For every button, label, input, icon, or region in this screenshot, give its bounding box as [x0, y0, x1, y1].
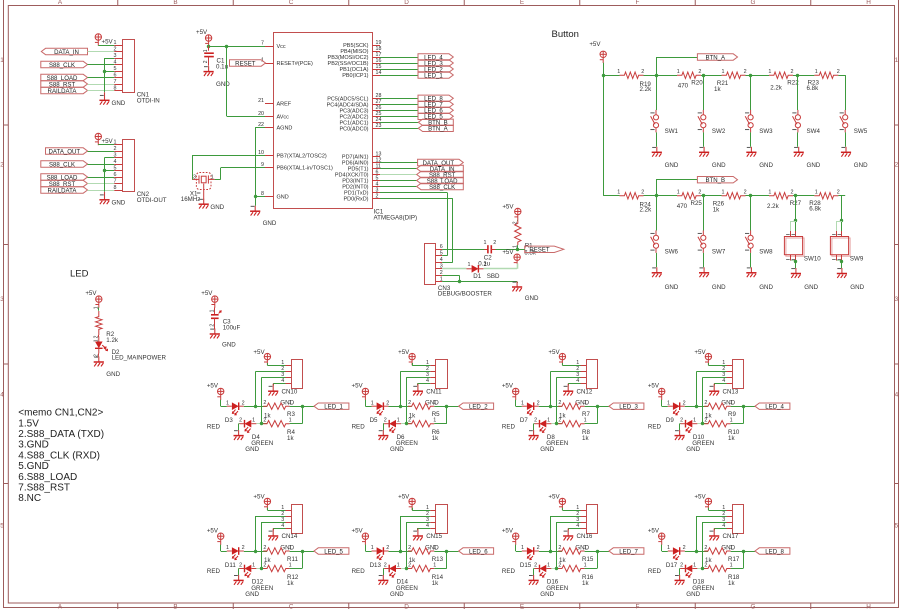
- svg-text:2: 2: [641, 190, 644, 196]
- ground symbol at CN16 pin 4: [567, 529, 569, 537]
- wire PB6 to crystal: [221, 167, 265, 169]
- svg-text:+5V: +5V: [201, 290, 213, 297]
- wire node down to R12: [302, 551, 304, 569]
- svg-text:1: 1: [203, 49, 209, 52]
- wire R28 to SW9: [838, 195, 842, 197]
- svg-text:1: 1: [93, 306, 99, 309]
- wire D9 to node: [685, 406, 697, 408]
- svg-text:PD0(RxD): PD0(RxD): [343, 197, 368, 203]
- wire +5V to D7: [515, 400, 517, 406]
- svg-text:+5V: +5V: [352, 383, 364, 390]
- svg-text:1: 1: [584, 562, 587, 568]
- wire R11 to LED_5 node: [290, 551, 314, 553]
- svg-text:2: 2: [386, 400, 389, 406]
- resistor R23 6.8k: [814, 72, 838, 78]
- ground symbol at SW9: [841, 268, 843, 274]
- svg-text:2: 2: [698, 69, 701, 75]
- svg-text:21: 21: [258, 98, 264, 104]
- svg-text:1k: 1k: [582, 580, 589, 587]
- svg-text:SW2: SW2: [712, 128, 726, 135]
- IC1 right pins: [372, 45, 380, 47]
- wire node down to R6: [446, 406, 448, 424]
- wire +5V to CN11 pin 1: [412, 363, 414, 365]
- svg-text:1k: 1k: [432, 435, 439, 442]
- +5V supply at CN11: [409, 353, 416, 365]
- wire node down to R8: [597, 406, 599, 424]
- net flag BTN_A: [656, 57, 658, 75]
- wire +5V to D13: [365, 545, 367, 551]
- switch SW6: [656, 196, 658, 231]
- svg-text:1: 1: [667, 400, 670, 406]
- net flag LED_2 at IC1: [418, 66, 453, 72]
- svg-text:1: 1: [768, 190, 771, 196]
- wire S88_LOAD to pin 6: [88, 77, 115, 79]
- svg-text:1: 1: [617, 69, 620, 75]
- wire D7 to node: [539, 406, 551, 408]
- svg-text:2: 2: [263, 562, 266, 568]
- resistor R15 1k: [551, 551, 562, 553]
- svg-text:+5V: +5V: [648, 527, 660, 534]
- svg-text:22: 22: [258, 122, 264, 128]
- ground symbol at D12: [238, 575, 240, 581]
- svg-text:D: D: [404, 0, 409, 6]
- svg-text:GND: GND: [665, 162, 679, 169]
- svg-text:6.8k: 6.8k: [809, 206, 822, 213]
- wire CN3 pin 1 to ground: [442, 281, 517, 283]
- svg-text:D15: D15: [520, 562, 532, 569]
- svg-text:2: 2: [558, 562, 561, 568]
- svg-text:2: 2: [641, 69, 644, 75]
- wire CN11 pin 3 down: [406, 377, 430, 379]
- svg-text:RED: RED: [352, 568, 366, 575]
- ground rail of CN1 (pins 3,5): [105, 58, 115, 60]
- svg-text:1: 1: [617, 190, 620, 196]
- ground symbol CN2: [104, 192, 106, 200]
- svg-text:C: C: [289, 604, 294, 609]
- net flag LED_6 at IC1: [418, 107, 453, 113]
- led D12 GREEN: [245, 565, 252, 573]
- svg-text:4: 4: [114, 159, 117, 165]
- svg-text:2: 2: [384, 418, 387, 424]
- svg-text:2: 2: [558, 545, 561, 551]
- wire CN16 pin 4 to ground: [568, 528, 580, 530]
- net flag LED_5: [314, 548, 349, 554]
- svg-text:2: 2: [683, 400, 686, 406]
- net flag LED_4: [755, 403, 790, 409]
- svg-text:LED_6: LED_6: [469, 548, 488, 555]
- wire R12 to node: [290, 568, 302, 570]
- svg-text:SW4: SW4: [807, 128, 821, 135]
- wire D18 to ground: [679, 568, 682, 570]
- wire CN17 pin 3 down: [703, 522, 727, 524]
- svg-text:2: 2: [408, 545, 411, 551]
- wire +5V to D3: [220, 400, 222, 406]
- net flag S88_RST: [41, 81, 88, 87]
- resistor R22 2.2k: [769, 72, 793, 78]
- svg-text:S88_CLK: S88_CLK: [429, 184, 455, 191]
- svg-text:2: 2: [537, 545, 540, 551]
- svg-text:2: 2: [0, 162, 4, 169]
- svg-text:A: A: [58, 0, 63, 6]
- svg-text:RAILDATA: RAILDATA: [48, 88, 78, 95]
- svg-text:4: 4: [0, 392, 4, 399]
- svg-text:2: 2: [239, 563, 242, 569]
- svg-text:CN10: CN10: [282, 388, 298, 395]
- wire CN12 pin 2 down: [551, 371, 581, 373]
- svg-text:S88_CLK: S88_CLK: [49, 161, 75, 168]
- svg-text:3: 3: [114, 53, 117, 59]
- wire PD2 to S88_CLK flag: [380, 186, 417, 188]
- led D5 RED: [377, 402, 384, 410]
- resistor R9 1k: [697, 406, 708, 408]
- ground symbol at SW5: [845, 147, 847, 153]
- ground symbol at SW8: [750, 267, 752, 273]
- resistor R5 1k: [401, 406, 412, 408]
- svg-text:PB0(ICP1): PB0(ICP1): [342, 73, 368, 79]
- +5V supply at CN17: [705, 498, 712, 510]
- svg-text:GND: GND: [686, 591, 700, 598]
- net flag LED_6: [459, 548, 494, 554]
- wire CN3 pin 2 join pin 1: [442, 275, 459, 277]
- svg-text:1: 1: [730, 545, 733, 551]
- svg-text:2: 2: [537, 400, 540, 406]
- svg-text:LED_MAINPOWER: LED_MAINPOWER: [112, 354, 167, 361]
- ground symbol at CN11 pin 4: [417, 384, 419, 392]
- wire CN12 pin 4 to ground: [568, 383, 580, 385]
- svg-text:PB7(XTAL2/TOSC2): PB7(XTAL2/TOSC2): [277, 154, 327, 160]
- svg-text:GND: GND: [759, 284, 773, 291]
- led D4 GREEN: [245, 420, 252, 428]
- wire PD6 to DATA_OUT flag: [380, 162, 418, 164]
- svg-text:1: 1: [547, 418, 550, 424]
- +5V supply at D1: [514, 254, 521, 264]
- svg-text:470: 470: [677, 203, 688, 210]
- svg-text:F: F: [636, 0, 640, 6]
- svg-text:2: 2: [744, 190, 747, 196]
- svg-text:+5V: +5V: [502, 527, 514, 534]
- ground symbol at SW3: [750, 147, 752, 153]
- svg-text:D3: D3: [225, 417, 233, 424]
- wire button rail BTN_A: [603, 75, 619, 77]
- wire AVcc feed: [226, 46, 228, 116]
- svg-text:2: 2: [493, 240, 496, 246]
- led D15 RED: [527, 547, 534, 555]
- svg-text:100uF: 100uF: [223, 325, 241, 332]
- svg-text:LED_3: LED_3: [619, 404, 638, 411]
- wire node down to R10: [743, 406, 745, 424]
- ground symbol at CN12 pin 4: [567, 384, 569, 392]
- wires PC5-PC2 to LED flags: [380, 98, 418, 100]
- svg-text:1: 1: [371, 400, 374, 406]
- wire +5V to D11: [220, 545, 222, 551]
- net flag RAILDATA: [41, 87, 88, 93]
- svg-text:2: 2: [114, 146, 117, 152]
- svg-text:D13: D13: [370, 562, 382, 569]
- svg-text:4.S88_CLK (RXD): 4.S88_CLK (RXD): [18, 450, 100, 461]
- junction dots rail BTN_A: [655, 74, 658, 77]
- svg-text:2: 2: [242, 400, 245, 406]
- ground symbol at C1: [208, 66, 210, 72]
- svg-text:CN16: CN16: [577, 533, 593, 540]
- wire D14 to ground: [382, 568, 385, 570]
- svg-text:D1: D1: [473, 273, 481, 280]
- svg-text:1.5V: 1.5V: [18, 418, 39, 429]
- svg-text:4: 4: [440, 257, 443, 263]
- net flag RAILDATA: [41, 187, 88, 193]
- svg-text:GND: GND: [807, 162, 821, 169]
- svg-text:1.2k: 1.2k: [106, 337, 119, 344]
- svg-text:RESET#(PCE): RESET#(PCE): [277, 61, 314, 67]
- +5V supply at CN13: [705, 353, 712, 365]
- svg-text:GND: GND: [106, 371, 120, 378]
- svg-text:5: 5: [440, 251, 443, 257]
- wire D4 to ground: [238, 423, 241, 425]
- svg-text:2: 2: [376, 193, 379, 199]
- wire R17 to LED_8 node: [731, 551, 755, 553]
- wire CN10 pin 3 down: [262, 377, 286, 379]
- svg-text:8: 8: [261, 191, 264, 197]
- svg-text:ATMEGA8(DIP): ATMEGA8(DIP): [374, 214, 418, 221]
- ground symbol at D2: [98, 355, 100, 356]
- svg-text:GND: GND: [210, 204, 224, 211]
- switch SW1: [656, 75, 658, 110]
- wire AGND down to GND pin: [255, 127, 265, 129]
- svg-text:RESET: RESET: [529, 247, 550, 254]
- svg-text:+5V: +5V: [589, 41, 601, 48]
- svg-text:LED_5: LED_5: [324, 548, 343, 555]
- svg-text:GND: GND: [222, 341, 236, 348]
- wire node down to R18: [743, 551, 745, 569]
- resistor R12 1k: [262, 568, 267, 570]
- svg-text:AREF: AREF: [277, 101, 292, 107]
- net flag RESET at CN3: [525, 246, 564, 252]
- svg-text:1: 1: [521, 545, 524, 551]
- crystal X1 16MHz: [193, 173, 215, 200]
- wire CN13 pin 2 down: [697, 371, 727, 373]
- svg-text:BTN_A: BTN_A: [705, 54, 726, 61]
- svg-text:F: F: [636, 604, 640, 609]
- svg-text:1: 1: [397, 418, 400, 424]
- wire +5V to CN15 pin 1: [412, 508, 414, 510]
- svg-text:1: 1: [211, 174, 214, 180]
- svg-text:SW3: SW3: [759, 128, 773, 135]
- net flag DATA_OUT at IC1: [418, 159, 464, 165]
- switch SW5: [845, 75, 847, 110]
- wire PD3 to S88_LOAD flag: [380, 180, 417, 182]
- +5V supply for button rows: [600, 51, 607, 63]
- svg-text:2: 2: [704, 400, 707, 406]
- svg-text:LED_1: LED_1: [324, 404, 343, 411]
- +5V supply at CN1 pin 1: [95, 34, 102, 46]
- wire R5 to LED_2 node: [434, 406, 458, 408]
- svg-text:A: A: [58, 604, 63, 609]
- wire D10 to ground: [679, 423, 682, 425]
- ground symbol at CN10 pin 4: [272, 384, 274, 392]
- wire R4 to node: [290, 423, 302, 425]
- ground symbol at D18: [679, 575, 681, 581]
- resistor R27 2.2k: [769, 193, 793, 199]
- svg-text:LED_8: LED_8: [765, 548, 784, 555]
- svg-text:1: 1: [433, 562, 436, 568]
- svg-text:2: 2: [744, 69, 747, 75]
- wire R7 to LED_3 node: [585, 406, 609, 408]
- net flag LED_8 at IC1: [418, 95, 453, 101]
- wire +5V to CN10 pin 1: [267, 363, 269, 365]
- svg-text:2: 2: [512, 221, 518, 224]
- svg-text:SBD: SBD: [487, 273, 500, 280]
- svg-text:+5V: +5V: [694, 349, 706, 356]
- resistor R7 1k: [551, 406, 562, 408]
- net flag S88_RST at IC1: [417, 171, 464, 177]
- svg-text:1: 1: [0, 57, 4, 64]
- net flag S88_CLK: [41, 61, 88, 67]
- net flag LED_7 at IC1: [418, 101, 453, 107]
- svg-text:RED: RED: [502, 568, 516, 575]
- svg-text:6.S88_LOAD: 6.S88_LOAD: [18, 472, 77, 483]
- ground symbol at D14: [382, 575, 384, 581]
- led D13 RED: [377, 547, 384, 555]
- svg-text:GND: GND: [686, 446, 700, 453]
- svg-text:2: 2: [384, 563, 387, 569]
- wire R16 to node: [585, 568, 597, 570]
- svg-text:2: 2: [263, 418, 266, 424]
- resistor R19 2.2k: [620, 72, 644, 78]
- resistor R10 1k: [703, 423, 708, 425]
- resistor R17 1k: [697, 551, 708, 553]
- led D14 GREEN: [389, 565, 396, 573]
- wire RAILDATA to pin 8: [88, 90, 115, 92]
- svg-text:SW9: SW9: [850, 256, 864, 263]
- ground symbol at D10: [679, 430, 681, 436]
- +5V supply at D17: [658, 533, 665, 545]
- IC1 left pins: [265, 46, 273, 48]
- resistor R25 470: [677, 193, 701, 199]
- net flag LED_3: [609, 403, 644, 409]
- svg-text:7: 7: [261, 41, 264, 47]
- wire +5V to CN1 pin 1: [98, 44, 100, 46]
- wire DATA_IN to pin 2: [88, 51, 115, 53]
- wire S88_CLK to pin 4: [88, 64, 115, 66]
- connector CN14: [292, 505, 303, 534]
- svg-text:1: 1: [584, 418, 587, 424]
- wire CN17 pin 2 down: [697, 516, 727, 518]
- svg-text:2: 2: [408, 400, 411, 406]
- svg-text:2: 2: [239, 418, 242, 424]
- resistor R14 1k: [406, 568, 411, 570]
- wire D3 to node: [244, 406, 256, 408]
- wire R9 to LED_4 node: [731, 406, 755, 408]
- svg-text:E: E: [520, 604, 524, 609]
- svg-text:LED_4: LED_4: [765, 404, 784, 411]
- net flag LED_8: [755, 548, 790, 554]
- wire node down to R4: [302, 406, 304, 424]
- svg-text:GND: GND: [216, 81, 230, 88]
- wire D15 to node: [539, 551, 551, 553]
- wire button rail BTN_B: [616, 195, 620, 197]
- wire CN15 pin 2 down: [401, 516, 431, 518]
- svg-text:7: 7: [114, 79, 117, 85]
- svg-text:2: 2: [698, 190, 701, 196]
- ground symbol at SW4: [798, 147, 800, 153]
- capacitor C2: [484, 249, 488, 251]
- wire PB7 to crystal: [192, 155, 265, 157]
- net flag S88_RST: [41, 180, 88, 186]
- svg-text:+5V: +5V: [253, 349, 265, 356]
- svg-text:1: 1: [895, 57, 899, 64]
- wire CN10 pin 2 down: [256, 371, 286, 373]
- svg-text:5: 5: [895, 523, 899, 530]
- svg-text:B: B: [173, 0, 177, 6]
- svg-text:GND: GND: [525, 295, 539, 302]
- net flag DATA_OUT: [46, 148, 88, 154]
- capacitor C1: [208, 46, 210, 51]
- resistor R26 1k: [722, 193, 746, 199]
- svg-text:SW7: SW7: [712, 249, 726, 256]
- svg-text:DATA_IN: DATA_IN: [54, 49, 79, 56]
- svg-text:1: 1: [468, 262, 471, 268]
- svg-text:GND: GND: [540, 446, 554, 453]
- +5V supply at D7: [512, 388, 519, 400]
- svg-text:1: 1: [433, 545, 436, 551]
- svg-text:8: 8: [114, 185, 117, 191]
- wire R3 to LED_1 node: [290, 406, 314, 408]
- wires PC1,PC0 to BTN flags: [380, 122, 418, 124]
- svg-text:+5V: +5V: [694, 494, 706, 501]
- +5V supply at D11: [217, 533, 224, 545]
- connector CN11: [436, 360, 448, 389]
- svg-text:AGND: AGND: [277, 125, 293, 131]
- resistor R11 1k: [256, 551, 267, 553]
- switch SW10: [795, 196, 797, 231]
- wire S88_CLK to pin 4: [88, 164, 115, 166]
- svg-text:4: 4: [895, 392, 899, 399]
- svg-text:1: 1: [677, 69, 680, 75]
- svg-text:1: 1: [252, 563, 255, 569]
- net flag LED_1: [314, 403, 349, 409]
- svg-text:2: 2: [683, 545, 686, 551]
- wire D8 to ground: [533, 423, 536, 425]
- svg-text:2: 2: [534, 563, 537, 569]
- +5V supply at R2: [95, 296, 102, 308]
- wire +5V to CN16 pin 1: [562, 508, 564, 510]
- wire D6 to ground: [382, 423, 385, 425]
- ground symbol CN1: [104, 92, 106, 100]
- +5V supply at CN12: [559, 353, 566, 365]
- svg-text:+5V: +5V: [253, 494, 265, 501]
- ground symbol at SW6: [656, 267, 658, 273]
- svg-text:2: 2: [837, 190, 840, 196]
- svg-text:2: 2: [837, 69, 840, 75]
- net flag S88_LOAD at IC1: [417, 177, 464, 183]
- switch SW2: [703, 75, 705, 110]
- resistor R3 1k: [256, 406, 267, 408]
- svg-text:3: 3: [0, 296, 4, 303]
- wire R10 to node: [731, 423, 743, 425]
- wire CN17 pin 4 to ground: [714, 528, 726, 530]
- svg-text:1: 1: [677, 190, 680, 196]
- svg-text:1: 1: [722, 69, 725, 75]
- wire CN14 pin 3 down: [262, 522, 286, 524]
- net flag LED_3 at IC1: [418, 60, 453, 66]
- svg-text:2: 2: [558, 418, 561, 424]
- svg-text:C: C: [289, 0, 294, 6]
- resistor R21 1k: [722, 72, 746, 78]
- svg-text:6: 6: [114, 172, 117, 178]
- wire CN11 pin 4 to ground: [418, 383, 430, 385]
- wire CN10 pin 4 to ground: [273, 383, 285, 385]
- ground symbol at CN3: [517, 282, 519, 283]
- wire CN16 pin 3 down: [557, 522, 581, 524]
